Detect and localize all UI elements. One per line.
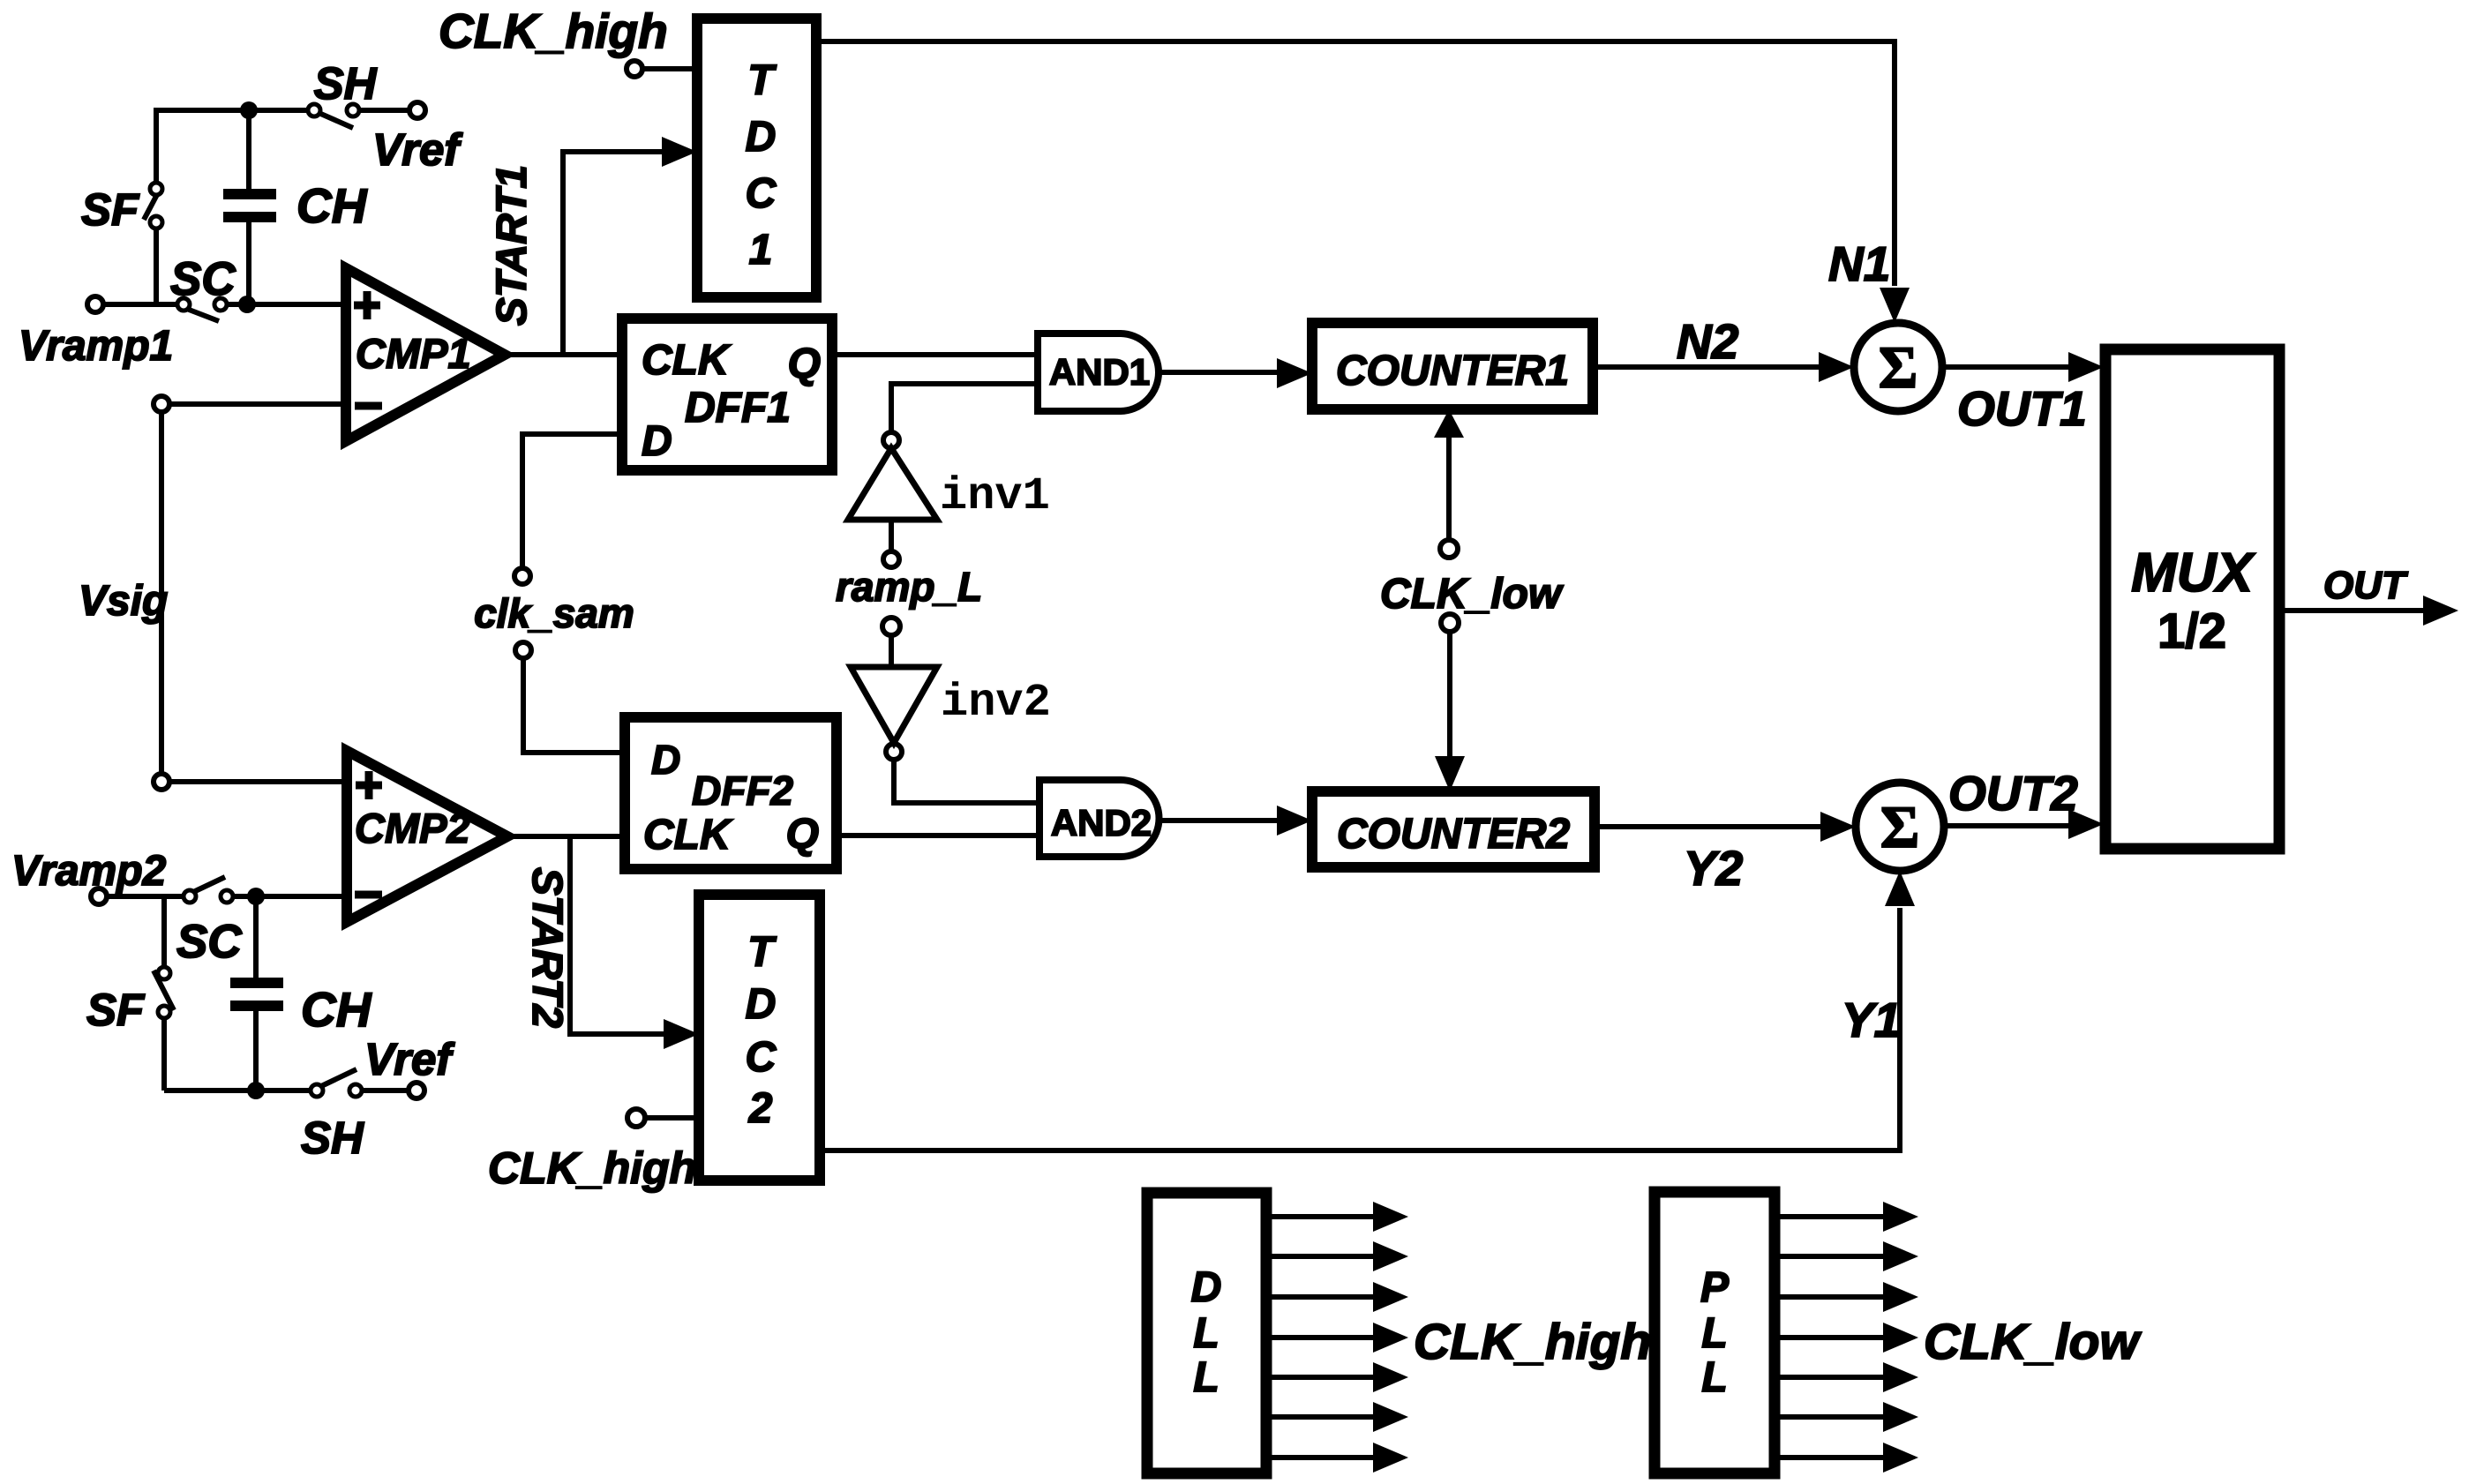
svg-text:OUT2: OUT2	[1948, 766, 2078, 821]
svg-text:D: D	[1191, 1264, 1222, 1311]
svg-text:C: C	[746, 1034, 777, 1081]
svg-text:START1: START1	[489, 165, 536, 326]
svg-text:Q: Q	[788, 341, 821, 387]
svg-text:SH: SH	[301, 1113, 364, 1163]
svg-text:inv1: inv1	[940, 470, 1050, 522]
svg-text:L: L	[1193, 1354, 1219, 1401]
svg-text:OUT: OUT	[2323, 564, 2408, 607]
svg-text:T: T	[747, 57, 777, 104]
svg-text:CMP2: CMP2	[355, 805, 470, 851]
svg-text:CMP1: CMP1	[356, 330, 471, 377]
svg-text:1/2: 1/2	[2158, 603, 2226, 658]
svg-text:Vramp2: Vramp2	[11, 848, 167, 895]
svg-text:CH: CH	[296, 178, 368, 233]
svg-text:clk_sam: clk_sam	[474, 590, 634, 636]
svg-text:Vsig: Vsig	[79, 578, 168, 625]
svg-text:COUNTER1: COUNTER1	[1336, 348, 1569, 394]
svg-text:T: T	[747, 929, 777, 976]
svg-text:DFF1: DFF1	[685, 385, 791, 431]
svg-text:SF: SF	[86, 985, 146, 1035]
svg-text:CLK: CLK	[643, 812, 733, 858]
svg-text:SH: SH	[314, 58, 378, 109]
svg-text:CLK_high: CLK_high	[439, 4, 668, 58]
svg-text:CLK_high: CLK_high	[488, 1143, 696, 1193]
svg-text:AND1: AND1	[1049, 351, 1150, 393]
svg-text:SC: SC	[170, 253, 236, 305]
svg-text:CLK_high: CLK_high	[1414, 1314, 1651, 1370]
svg-text:Σ: Σ	[1879, 334, 1917, 401]
svg-text:ramp_L: ramp_L	[836, 564, 982, 610]
svg-text:MUX: MUX	[2131, 543, 2255, 603]
svg-text:AND2: AND2	[1051, 802, 1152, 843]
svg-text:Vramp1: Vramp1	[19, 323, 173, 370]
svg-text:Vref: Vref	[372, 124, 463, 175]
svg-text:2: 2	[748, 1085, 773, 1132]
svg-text:COUNTER2: COUNTER2	[1337, 811, 1570, 858]
svg-text:L: L	[1193, 1310, 1219, 1357]
svg-text:CLK_low: CLK_low	[1924, 1314, 2143, 1370]
svg-text:CH: CH	[301, 982, 372, 1037]
svg-text:SC: SC	[176, 916, 242, 968]
svg-text:Vref: Vref	[364, 1034, 455, 1084]
svg-text:C: C	[746, 170, 777, 217]
svg-text:N2: N2	[1677, 314, 1739, 369]
svg-text:START2: START2	[523, 867, 570, 1029]
svg-text:D: D	[651, 737, 680, 783]
svg-text:Σ: Σ	[1880, 793, 1919, 860]
svg-text:1: 1	[749, 227, 773, 274]
svg-text:Y2: Y2	[1684, 841, 1744, 896]
svg-text:DFF2: DFF2	[692, 768, 793, 813]
svg-text:L: L	[1701, 1354, 1727, 1401]
svg-text:inv2: inv2	[941, 677, 1051, 729]
svg-text:CLK_low: CLK_low	[1380, 571, 1564, 618]
svg-text:N1: N1	[1828, 236, 1890, 291]
svg-text:D: D	[642, 418, 672, 465]
svg-text:Y1: Y1	[1842, 993, 1901, 1047]
svg-text:CLK: CLK	[642, 337, 732, 384]
svg-text:D: D	[746, 114, 777, 161]
svg-text:Q: Q	[786, 811, 819, 858]
svg-text:P: P	[1700, 1264, 1730, 1311]
svg-text:L: L	[1701, 1310, 1727, 1357]
svg-text:D: D	[746, 981, 777, 1028]
svg-text:OUT1: OUT1	[1957, 381, 2087, 436]
svg-text:SF: SF	[81, 184, 140, 235]
